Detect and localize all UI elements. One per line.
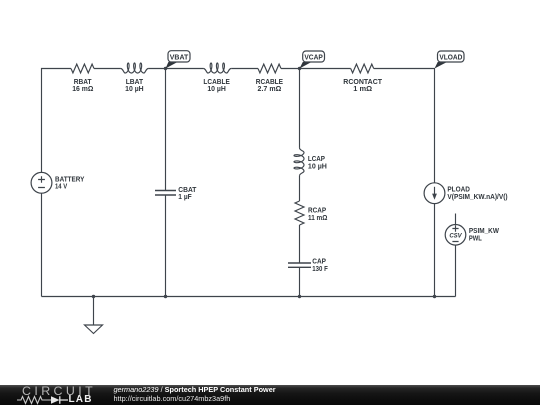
label PLOAD expression (447, 187, 507, 201)
junction dot PLOAD bottom (433, 295, 436, 298)
voltage source PSIM_KW (CSV/PWL) (445, 225, 466, 246)
logo CIRCUIT word (22, 384, 96, 398)
wire RCONTACT to VLOAD corner down to PLOAD (374, 69, 435, 183)
inductor L2 LCABLE (203, 63, 231, 73)
wire PSIM_KW to bottom rail (455, 245, 457, 296)
svg-text:CAP: CAP (312, 259, 326, 266)
svg-text:1 mΩ: 1 mΩ (353, 86, 372, 93)
svg-text:10 µH: 10 µH (308, 164, 327, 171)
capacitor C2 CAP plates (288, 263, 311, 267)
logo schematic glyph (16, 394, 86, 406)
wire VCAP down to LCAP (299, 69, 301, 148)
junction dot ground (92, 295, 95, 298)
node flag VBAT (166, 51, 191, 69)
ground stem (93, 297, 95, 326)
node flag VLOAD (435, 51, 465, 69)
resistor R3 RCAP (295, 201, 304, 225)
svg-text:16 mΩ: 16 mΩ (72, 86, 93, 93)
svg-text:CSV: CSV (449, 233, 462, 239)
wire RBAT to LBAT (94, 68, 121, 70)
svg-text:CBAT: CBAT (178, 187, 197, 194)
svg-text:RCONTACT: RCONTACT (343, 79, 383, 86)
footer credit line (114, 385, 276, 394)
wire LBAT through node VBAT to LCABLE (148, 68, 203, 70)
resistor R2 RCABLE (258, 64, 281, 73)
label LCABLE 10 uH (203, 79, 230, 93)
label LBAT 10 uH (125, 79, 144, 93)
label CBAT 1 uF (178, 187, 197, 201)
node VBAT junction dot (164, 67, 167, 70)
wire LCAP to RCAP (299, 176, 301, 201)
wire CAP to bottom rail (299, 267, 301, 296)
svg-text:LBAT: LBAT (126, 79, 144, 86)
capacitor C1 CBAT plates (155, 191, 176, 196)
svg-text:10 µH: 10 µH (125, 86, 144, 93)
svg-text:11 mΩ: 11 mΩ (308, 215, 328, 222)
wire PLOAD to bottom rail (434, 204, 436, 297)
svg-text:PWL: PWL (469, 235, 483, 242)
label RCONTACT 1 mohm (343, 79, 383, 93)
resistor R4 RCONTACT (351, 64, 374, 73)
svg-text:RBAT: RBAT (74, 79, 92, 86)
wire VBAT down to CBAT (165, 69, 167, 191)
label RBAT 16 mohm (72, 79, 93, 93)
svg-text:1 µF: 1 µF (178, 194, 192, 201)
node flag VCAP (300, 51, 325, 69)
svg-text:RCABLE: RCABLE (256, 79, 284, 86)
label CAP 130 F (312, 259, 328, 274)
inductor L3 LCAP (294, 148, 304, 176)
svg-text:PSIM_KW: PSIM_KW (469, 228, 499, 235)
inductor L1 LBAT (121, 63, 149, 73)
svg-text:VLOAD: VLOAD (439, 55, 462, 62)
junction dot CAP bottom (298, 295, 301, 298)
svg-text:V(PSIM_KW.nA)/V(): V(PSIM_KW.nA)/V() (447, 194, 507, 201)
svg-text:VCAP: VCAP (304, 55, 323, 62)
label PSIM_KW PWL (469, 228, 499, 242)
wire bottom rail (42, 296, 456, 298)
label LCAP 10 uH (308, 156, 327, 171)
wire stub above PSIM_KW (455, 214, 457, 225)
svg-text:LCABLE: LCABLE (203, 79, 230, 86)
wire CBAT to bottom rail (165, 195, 167, 297)
junction dot CBAT bottom (164, 295, 167, 298)
current source PLOAD (424, 183, 445, 204)
svg-text:VBAT: VBAT (170, 55, 189, 62)
label RCABLE 2.7 mohm (256, 79, 284, 93)
voltage source BATTERY 14V (31, 172, 52, 193)
wire RCAP to CAP (299, 225, 301, 263)
svg-text:2.7 mΩ: 2.7 mΩ (258, 86, 282, 93)
svg-text:RCAP: RCAP (308, 207, 326, 214)
wire battery top to RBAT (42, 69, 72, 173)
svg-text:LCAP: LCAP (308, 156, 325, 163)
footer url line (114, 394, 231, 403)
svg-text:14 V: 14 V (55, 184, 67, 191)
svg-text:BATTERY: BATTERY (55, 177, 85, 184)
wire LCABLE to RCABLE (231, 68, 258, 70)
ground triangle (85, 325, 103, 334)
label RCAP 11 mohm (308, 207, 328, 222)
svg-text:PLOAD: PLOAD (447, 187, 470, 194)
wire battery bottom to rail (41, 193, 43, 296)
footer bar (0, 385, 540, 406)
node VCAP junction dot (298, 67, 301, 70)
resistor R1 RBAT (71, 64, 94, 73)
svg-text:130 F: 130 F (312, 266, 328, 273)
label BATTERY 14 V (55, 177, 85, 191)
wire RCABLE through node VCAP to RCONTACT (281, 68, 351, 70)
svg-text:10 µH: 10 µH (207, 86, 226, 93)
